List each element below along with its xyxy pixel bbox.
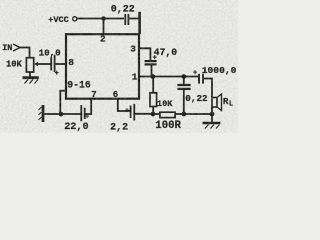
speaker RL: [212, 94, 233, 114]
node junction VCC / pin 2: [101, 16, 106, 21]
paper background: [0, 0, 238, 133]
capacitor 47,0 (bootstrap): [145, 47, 178, 76]
capacitor 0,22 (zobel): [177, 77, 208, 115]
wire pin 7: [85, 99, 92, 114]
wire pin 3: [139, 48, 150, 60]
capacitor 2,2 (pin 6): [110, 104, 134, 134]
wire pin 2 drop: [103, 19, 105, 35]
paper speckle noise overlay: [0, 0, 238, 133]
node junction speaker / ground: [210, 112, 215, 117]
wire pins 9-16 to bottom junction: [60, 91, 66, 114]
ground (bottom left, vertical bar): [39, 105, 62, 122]
wire 22,0 left lead: [61, 113, 81, 115]
resistor 100R: [153, 112, 184, 132]
capacitor 1000,0 (output coupling): [193, 65, 237, 83]
wire pin 6: [118, 99, 131, 111]
wire IN to potentiometer: [20, 48, 30, 58]
capacitor 0,22 (supply decoupling): [111, 4, 140, 34]
wire 1000,0 to speaker: [203, 79, 212, 98]
wire pin 1 output rail: [139, 76, 198, 78]
node junction bottom rail / 0,22: [181, 112, 186, 117]
wire VCC rail: [77, 18, 124, 20]
ground (pot): [23, 72, 39, 84]
node junction bottom-left: [59, 112, 64, 117]
ground (right): [203, 114, 221, 129]
op-amp IC U1 body: [66, 34, 139, 99]
wire bottom rail to speaker: [184, 113, 212, 115]
capacitor 10,0 (input coupling): [39, 47, 61, 77]
potentiometer 10K: [6, 58, 51, 72]
wire cap to pin 8: [56, 63, 67, 65]
resistor 10K (feedback): [150, 77, 173, 115]
wire 2,2 to bottom rail junction: [134, 113, 153, 115]
capacitor 22,0 (pin 7 bypass): [64, 105, 89, 133]
node junction rail / 0,22: [181, 74, 186, 79]
node junction bottom rail / 10K: [151, 112, 156, 117]
node junction pin1 / 47,0 / 10K: [150, 74, 155, 79]
